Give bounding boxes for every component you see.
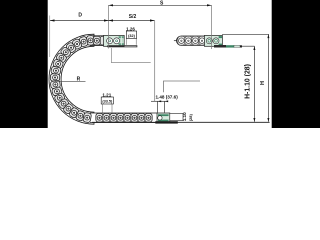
mounting rail under bracket position 1 <box>107 45 137 47</box>
left black sidebar <box>0 0 48 128</box>
svg-text:1.26: 1.26 <box>126 26 135 31</box>
svg-text:R: R <box>77 76 81 82</box>
arrowhead H-1.10 top <box>253 46 255 50</box>
cable carrier band at travel position 2 <box>174 36 205 45</box>
extension line chain top to H <box>222 33 269 35</box>
svg-text:(33.5): (33.5) <box>102 100 113 104</box>
right black sidebar <box>272 0 320 128</box>
chain links on upper run <box>93 36 104 45</box>
arrowhead S/2 left <box>109 19 114 21</box>
svg-text:1.10: 1.10 <box>182 112 187 121</box>
arrowhead S right <box>207 4 212 6</box>
arrowhead S/2 right <box>150 19 155 21</box>
extension line at moving end position 1 <box>108 5 110 48</box>
fixed-end mounting bracket (green, lower right) <box>155 113 183 124</box>
dimension line D and S/2 <box>50 20 155 22</box>
dimension line H <box>267 34 269 122</box>
extension line fixed end right <box>164 101 166 113</box>
svg-text:(28): (28) <box>188 113 193 121</box>
arrowhead D right <box>104 19 109 21</box>
leader for dimension 1.48 (37.6) <box>164 81 201 92</box>
leader line for radius R <box>55 80 86 82</box>
arrowhead 1.48 left <box>158 100 162 102</box>
dimension line 1.48 (37.6) <box>151 100 166 102</box>
arrowhead H top <box>267 34 269 38</box>
extension line fixed end left <box>157 101 159 113</box>
cable carrier upper run (position 1) <box>90 36 105 46</box>
centre line of bend at mid travel <box>154 21 156 102</box>
mounting rail under bracket position 2 <box>214 45 255 48</box>
moving-end mounting bracket, position 1 (green) <box>104 35 125 46</box>
chain links on lower run <box>96 113 152 122</box>
cable carrier lower run <box>90 113 157 123</box>
boxed label (32) with leaders <box>126 31 136 45</box>
boxed label (33.5) with leaders <box>101 97 113 113</box>
arrowhead S left <box>109 4 114 6</box>
chain links at position 2 <box>178 36 206 45</box>
chain links on bend <box>50 35 94 123</box>
leader from moving end connection <box>111 48 150 63</box>
svg-text:1.48 (37.6): 1.48 (37.6) <box>156 95 179 100</box>
dimension line H-1.10 (28) <box>253 46 255 122</box>
moving-end mounting bracket, position 2 (green) <box>204 35 222 46</box>
arrowhead H bottom <box>267 118 269 122</box>
cable carrier bend band (U-loop annulus) <box>49 34 94 124</box>
arrowhead H-1.10 bottom <box>253 118 255 122</box>
svg-text:S/2: S/2 <box>129 14 137 20</box>
arrowhead 1.48 right <box>165 100 169 102</box>
svg-text:H-1.10 (28): H-1.10 (28) <box>244 64 251 99</box>
arrowhead D left <box>50 19 55 21</box>
svg-text:H: H <box>260 81 266 85</box>
extension line at bend outer edge <box>49 16 51 58</box>
ground / floor line <box>92 121 270 123</box>
extension line at moving end position 2 <box>211 5 213 49</box>
svg-text:D: D <box>78 13 82 19</box>
svg-text:(32): (32) <box>128 34 135 38</box>
dimension line S (travel) <box>109 4 212 6</box>
